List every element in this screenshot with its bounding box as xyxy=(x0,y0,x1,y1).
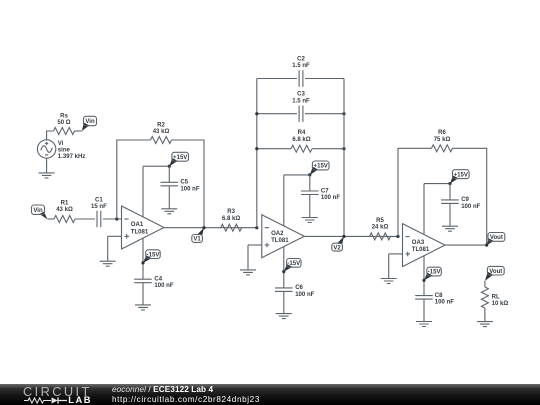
svg-text:100 nF: 100 nF xyxy=(461,204,480,210)
svg-text:C9: C9 xyxy=(461,197,469,203)
resistor R2 xyxy=(151,137,172,144)
wire OA1 V+ supply pin xyxy=(142,166,144,217)
node V1 xyxy=(202,226,205,229)
wire +15V node to C5 xyxy=(168,166,170,182)
node -15V stage 2 xyxy=(282,270,285,273)
resistor R4 xyxy=(291,145,312,152)
svg-text:Vi: Vi xyxy=(58,141,64,147)
power flag +15V stage 2 xyxy=(310,161,329,175)
net flag Vout (output) xyxy=(487,233,505,246)
node C3 right xyxy=(342,112,345,115)
wire C8 to ground xyxy=(423,299,425,321)
capacitor C7 xyxy=(301,191,319,195)
wire OA3 non-inverting input xyxy=(389,253,403,255)
svg-text:C6: C6 xyxy=(295,285,303,291)
svg-text:10 kΩ: 10 kΩ xyxy=(492,301,509,307)
wire C3 row left xyxy=(257,113,297,115)
svg-text:V2: V2 xyxy=(333,245,341,251)
op-amp OA2 xyxy=(262,215,305,258)
ground below RL xyxy=(477,322,493,327)
net flag V2 xyxy=(332,236,344,251)
wire Rs to Vin flag xyxy=(75,130,82,132)
resistor R3 xyxy=(221,224,242,231)
svg-text:RL: RL xyxy=(492,294,500,300)
capacitor C1 xyxy=(97,211,101,227)
net flag Vin (source) xyxy=(82,116,97,131)
svg-text:-15V: -15V xyxy=(287,261,300,267)
ground below C6 xyxy=(276,314,292,319)
svg-text:6.8 kΩ: 6.8 kΩ xyxy=(292,137,310,143)
svg-text:R5: R5 xyxy=(376,218,384,224)
node +15V stage 1 xyxy=(168,165,171,168)
svg-text:50 Ω: 50 Ω xyxy=(57,120,70,126)
node +15V stage 3 xyxy=(448,182,451,185)
capacitor C2 xyxy=(299,70,303,86)
svg-text:100 nF: 100 nF xyxy=(295,292,314,298)
wire R6 to output vertical xyxy=(453,148,487,245)
wire R4 row left xyxy=(257,148,291,150)
wire OA3 output xyxy=(445,244,487,246)
svg-text:OA3: OA3 xyxy=(412,240,425,246)
svg-text:100 nF: 100 nF xyxy=(321,195,340,201)
wire OA1 non-inverting input xyxy=(108,235,122,237)
wire non-inverting to ground stage 1 xyxy=(107,236,109,261)
svg-text:Rs: Rs xyxy=(60,113,68,119)
svg-text:1.5 nF: 1.5 nF xyxy=(292,63,310,69)
svg-text:TL081: TL081 xyxy=(271,238,289,244)
svg-text:15 nF: 15 nF xyxy=(91,204,107,210)
wire +15V rail stage 2 xyxy=(284,174,310,176)
svg-text:6.8 kΩ: 6.8 kΩ xyxy=(222,216,240,222)
node Vout xyxy=(485,244,488,247)
wire OA3 V- supply pin xyxy=(423,256,425,296)
svg-text:C2: C2 xyxy=(297,56,305,62)
svg-text:R4: R4 xyxy=(298,130,306,136)
node junction at OA1 inverting input xyxy=(115,217,118,220)
wire +15V node to C7 xyxy=(309,175,311,191)
node +15V stage 2 xyxy=(308,173,311,176)
svg-text:43 kΩ: 43 kΩ xyxy=(153,129,170,135)
node V2 xyxy=(342,235,345,238)
wire C1 to OA1 inverting input xyxy=(103,218,122,220)
svg-text:+15V: +15V xyxy=(454,172,468,178)
svg-text:TL081: TL081 xyxy=(131,230,149,236)
ground below C7 xyxy=(302,218,318,223)
capacitor C4 xyxy=(134,279,152,283)
svg-text:1.397 kHz: 1.397 kHz xyxy=(58,154,86,160)
resistor R1 xyxy=(54,216,75,223)
power flag +15V stage 3 xyxy=(450,170,469,184)
wire OA2 output xyxy=(304,235,398,237)
op-amp OA1 xyxy=(122,206,165,249)
ground below C9 xyxy=(442,226,458,231)
wire OA1 V- supply pin xyxy=(142,238,144,279)
svg-text:R6: R6 xyxy=(438,130,446,136)
ground below C4 xyxy=(135,305,151,310)
wire RL to ground xyxy=(484,308,486,322)
svg-text:OA1: OA1 xyxy=(131,222,144,228)
svg-text:OA2: OA2 xyxy=(271,231,284,237)
wire feedback top with C2 xyxy=(257,78,297,80)
wire C9 to ground xyxy=(449,203,451,226)
wire C3 row right xyxy=(305,113,344,115)
svg-text:C7: C7 xyxy=(321,188,329,194)
ground at OA2 non-inverting input xyxy=(240,270,256,275)
svg-text:Vout: Vout xyxy=(490,235,503,241)
node -15V stage 1 xyxy=(141,261,144,264)
node R4 left xyxy=(255,147,258,150)
power flag -15V stage 3 xyxy=(424,267,441,280)
capacitor C3 xyxy=(299,106,303,122)
capacitor C6 xyxy=(275,288,293,292)
node junction at OA3 inverting input xyxy=(396,235,399,238)
node -15V stage 3 xyxy=(422,279,425,282)
svg-text:-15V: -15V xyxy=(147,252,160,258)
node junction at OA2 inverting input xyxy=(255,226,258,229)
voltage source Vi xyxy=(37,140,85,160)
wire OA3 V+ supply pin xyxy=(423,184,425,235)
wire OA2 V- supply pin xyxy=(283,247,285,288)
wire C7 to ground xyxy=(309,195,311,218)
svg-text:C8: C8 xyxy=(435,293,443,299)
ground below Vi xyxy=(39,173,55,178)
svg-text:+15V: +15V xyxy=(314,164,328,170)
wire OA2 non-inverting input xyxy=(248,244,262,246)
net flag Vin (input) xyxy=(32,205,48,219)
svg-text:R3: R3 xyxy=(227,209,235,215)
svg-text:75 kΩ: 75 kΩ xyxy=(434,137,451,143)
wire R4 row right xyxy=(312,148,344,150)
footer title line xyxy=(112,385,213,394)
wire C2 right xyxy=(305,78,344,80)
power flag +15V stage 1 xyxy=(169,152,188,166)
resistor Rs xyxy=(54,128,75,135)
capacitor C8 xyxy=(415,296,433,300)
svg-text:sine: sine xyxy=(58,147,71,153)
svg-text:R2: R2 xyxy=(157,123,165,129)
wire Vin to R1 xyxy=(48,218,55,220)
svg-text:C4: C4 xyxy=(154,277,162,283)
wire non-inverting to ground stage 3 xyxy=(388,254,390,279)
svg-text:Vin: Vin xyxy=(85,119,95,125)
wire OA1 output xyxy=(164,227,257,229)
ground at OA3 non-inverting input xyxy=(381,279,397,284)
wire +15V rail stage 3 xyxy=(424,183,450,185)
CircuitLab logo resistor-diode symbol xyxy=(23,396,69,405)
wire non-inverting to ground stage 2 xyxy=(247,245,249,270)
footer url line xyxy=(112,395,260,404)
svg-text:C3: C3 xyxy=(297,92,305,98)
ground below C8 xyxy=(416,322,432,327)
CircuitLab logo wordmark CIRCUIT xyxy=(23,384,92,399)
svg-text:Vin: Vin xyxy=(33,208,43,214)
svg-text:43 kΩ: 43 kΩ xyxy=(56,207,73,213)
resistor RL xyxy=(481,287,488,308)
wire R2 to OA1 output node xyxy=(172,140,205,228)
capacitor C5 xyxy=(161,182,179,186)
power flag -15V stage 1 xyxy=(143,250,160,263)
wire Vout flag to RL xyxy=(484,281,486,287)
ground below C5 xyxy=(161,209,177,214)
svg-text:C1: C1 xyxy=(95,198,103,204)
footer bar xyxy=(0,384,540,405)
power flag -15V stage 2 xyxy=(284,259,301,272)
svg-text:24 kΩ: 24 kΩ xyxy=(372,225,389,231)
svg-text:100 nF: 100 nF xyxy=(154,283,173,289)
wire C6 to ground xyxy=(283,291,285,313)
wire Vi top to Rs xyxy=(47,131,54,140)
CircuitLab logo wordmark LAB xyxy=(68,395,92,405)
wire C5 to ground xyxy=(168,186,170,209)
wire Vi bottom xyxy=(46,158,48,173)
svg-text:TL081: TL081 xyxy=(412,247,430,253)
op-amp OA3 xyxy=(403,224,446,267)
resistor R6 xyxy=(432,145,453,152)
svg-text:V1: V1 xyxy=(193,237,201,243)
wire feedback left vertical stage 2 xyxy=(256,79,258,228)
wire feedback left vertical stage 3 xyxy=(398,148,432,236)
svg-text:1.5 nF: 1.5 nF xyxy=(292,98,310,104)
capacitor C9 xyxy=(441,200,459,204)
wire C4 to ground xyxy=(142,283,144,305)
svg-text:C5: C5 xyxy=(180,180,188,186)
wire R1 to C1 xyxy=(75,218,95,220)
ground at OA1 non-inverting input xyxy=(100,261,116,266)
wire feedback right vertical stage 2 xyxy=(343,79,345,237)
svg-text:R1: R1 xyxy=(61,200,69,206)
svg-text:100 nF: 100 nF xyxy=(180,186,199,192)
node R4 right xyxy=(342,147,345,150)
wire +15V node to C9 xyxy=(449,184,451,200)
net flag Vout (load) xyxy=(485,266,504,281)
wire OA2 V+ supply pin xyxy=(283,175,285,226)
svg-text:-15V: -15V xyxy=(428,270,441,276)
net flag V1 xyxy=(192,228,204,243)
node C3 left xyxy=(255,112,258,115)
wire +15V rail stage 1 xyxy=(143,165,169,167)
resistor R5 xyxy=(370,233,391,240)
svg-text:+15V: +15V xyxy=(173,155,187,161)
svg-text:100 nF: 100 nF xyxy=(435,300,454,306)
svg-text:Vout: Vout xyxy=(489,269,502,275)
wire feedback up from inverting node xyxy=(117,140,151,219)
